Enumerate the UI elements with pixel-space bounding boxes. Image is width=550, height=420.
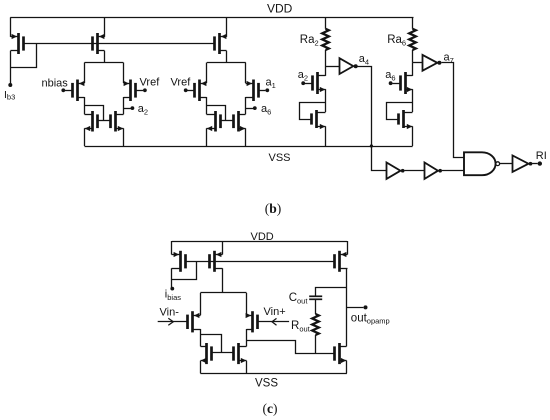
arrow Vin+ input xyxy=(272,318,277,325)
wire N3 diode tap xyxy=(207,106,226,121)
VSS rail (b) xyxy=(85,146,413,148)
wire T3 drain to cell2 rail xyxy=(226,51,228,63)
buffer A7 xyxy=(423,55,438,71)
wire output node xyxy=(346,268,348,346)
wire cap to Rout xyxy=(315,299,317,314)
svg-text:VDD: VDD xyxy=(267,1,293,15)
node a6 xyxy=(253,106,257,110)
svg-text:Vin-: Vin- xyxy=(160,307,180,319)
transistor N1 (NMOS mirror diode) xyxy=(85,111,98,132)
VSS rail (c) xyxy=(200,373,347,375)
transistor Pd2 (PMOS Vin+) xyxy=(246,311,258,332)
VDD rail (b) xyxy=(10,17,413,19)
transistor P1 (PMOS input nbias) xyxy=(65,80,85,102)
transistor N2 (NMOS mirror) xyxy=(111,111,124,132)
wire chain2 to NAND xyxy=(442,170,464,172)
wire Nc2 source down xyxy=(246,361,248,374)
wire a2 tap xyxy=(123,108,131,110)
node nbias xyxy=(61,88,65,92)
transistor P4 (PMOS input a1) xyxy=(246,80,266,102)
wire M1 diode loop xyxy=(172,262,197,280)
transistor M6 (NMOS output) xyxy=(335,343,347,364)
wire to RI xyxy=(532,163,538,165)
transistor Nb2 (NMOS diode) xyxy=(312,110,326,129)
wire T1 diode loop xyxy=(11,44,37,68)
wire M1-M2-M5 gate bus xyxy=(185,261,334,263)
transistor N3 (NMOS mirror diode) xyxy=(207,111,221,132)
wire a6 tap xyxy=(246,108,254,110)
transistor Na6 (NMOS gate a6) xyxy=(392,72,412,94)
wire cell2 left spine mid xyxy=(206,97,208,114)
buffer A8 xyxy=(387,163,401,179)
svg-text:RI: RI xyxy=(536,150,547,162)
wire N1 diode tap xyxy=(85,106,104,121)
wire first stage out to M6 gate xyxy=(247,341,335,354)
wire Nc1 diode tap xyxy=(201,335,222,353)
wire T1 drain down to Ib3 xyxy=(10,51,12,85)
wire M1 drain to ibias xyxy=(171,268,173,288)
wire a4 to chain xyxy=(358,67,387,171)
resistor Rout xyxy=(312,314,319,335)
transistor Nc2 (NMOS mirror) xyxy=(234,343,247,364)
wire cell2 left spine upper xyxy=(206,63,208,84)
buffer A4 xyxy=(340,58,354,74)
transistor Na2 (NMOS gate a2) xyxy=(305,72,326,94)
transistor Nc1 (NMOS mirror diode) xyxy=(201,343,212,364)
wire chain1 to A9 xyxy=(405,170,425,172)
wire Vin+ input xyxy=(258,321,289,323)
transistor N4 (NMOS mirror) xyxy=(234,111,246,132)
node chain1 xyxy=(401,169,405,173)
wire tail rail xyxy=(200,292,246,294)
wire cell2 right spine upper xyxy=(245,63,247,84)
transistor M2 (PMOS mirror) xyxy=(210,251,223,272)
wire cell1 left spine upper xyxy=(84,63,86,84)
transistor P2 (PMOS input Vref) xyxy=(124,80,144,102)
node a6 gate xyxy=(389,81,393,85)
svg-text:VSS: VSS xyxy=(269,152,291,164)
wire cell1 left spine mid xyxy=(84,97,86,114)
resistor Ra2 xyxy=(322,29,329,50)
wire Ra2 spine lower xyxy=(325,126,327,146)
wire N3-N4 gate link xyxy=(221,120,233,122)
wire Ra2 spine upper xyxy=(325,66,327,76)
capacitor Cout top lead xyxy=(316,288,347,297)
node buffer A10 out xyxy=(529,162,533,166)
wire cell2 right spine lower xyxy=(245,128,247,146)
wire cell1 right spine upper xyxy=(123,63,125,84)
wire Ra2 spine mid xyxy=(325,89,327,112)
node Ib3 xyxy=(8,83,12,87)
transistor P3 (PMOS input Vref) xyxy=(187,80,206,102)
wire Nc1 source down xyxy=(200,361,202,374)
node a7 xyxy=(437,61,441,65)
wire T1 source to VDD xyxy=(10,17,12,37)
wire T2 drain to cell1 rail xyxy=(104,51,106,63)
transistor T3 (PMOS mirror) xyxy=(215,33,227,54)
svg-text:VSS: VSS xyxy=(255,378,278,390)
resistor Ra6 lead top xyxy=(412,17,414,28)
arrow Vin- input xyxy=(168,318,173,325)
transistor Nb6 (NMOS diode) xyxy=(399,110,413,129)
node a2 gate xyxy=(301,81,305,85)
node chain2 xyxy=(438,169,442,173)
resistor Ra6 xyxy=(409,29,416,50)
wire cell1 left spine lower xyxy=(84,128,86,146)
wire Ra2 to node a4row xyxy=(325,50,327,66)
svg-text:nbias: nbias xyxy=(42,77,69,89)
wire T2 source to VDD xyxy=(104,17,106,37)
resistor Ra2 lead top xyxy=(325,17,327,28)
capacitor Cout xyxy=(309,296,322,299)
svg-text:Vin+: Vin+ xyxy=(264,306,286,318)
wire tail left down xyxy=(200,293,202,315)
wire node to buffer A4 xyxy=(325,66,339,68)
wire N1-N2 gate link xyxy=(98,120,110,122)
svg-text:Vref: Vref xyxy=(171,77,192,89)
svg-text:(c): (c) xyxy=(263,401,278,416)
svg-text:Vref: Vref xyxy=(140,77,161,89)
transistor T1 (PMOS diode) xyxy=(11,33,24,54)
transistor M5 (PMOS output) xyxy=(335,251,348,272)
wire cell1 right spine lower xyxy=(123,128,125,146)
node a2 xyxy=(131,106,135,110)
node outopamp xyxy=(364,305,368,309)
transistor T2 (PMOS mirror) xyxy=(93,33,105,54)
node Vref cell2 xyxy=(184,88,188,92)
wire M1 source to VDD xyxy=(171,241,173,255)
svg-text:(b): (b) xyxy=(265,201,282,216)
VDD rail (c) xyxy=(172,241,347,243)
wire Ra6 spine lower xyxy=(412,126,414,146)
wire cell2 right spine mid xyxy=(245,97,247,114)
wire cell1 top rail xyxy=(85,62,124,64)
wire Rout bottom xyxy=(315,335,317,354)
node a4 xyxy=(354,64,358,68)
buffer A10 xyxy=(513,156,529,172)
transistor M1 (PMOS diode) xyxy=(172,251,186,272)
wire Ra6 spine upper xyxy=(412,63,414,76)
wire T3 source to VDD xyxy=(226,17,228,37)
wire cell2 top rail xyxy=(207,62,246,64)
wire M2 source to VDD xyxy=(222,241,224,255)
wire M2 drain to tail xyxy=(222,268,224,293)
wire out tap xyxy=(347,307,364,309)
wire gate bus y=43 xyxy=(23,43,214,45)
node a1 xyxy=(265,88,269,92)
node a4-vss crossing xyxy=(370,144,373,147)
wire node to buffer A7 xyxy=(413,62,423,64)
wire tail right down xyxy=(246,293,248,315)
wire Pd1 drain down xyxy=(200,329,202,346)
wire Nc1-Nc2 gate link xyxy=(212,352,233,354)
node RI xyxy=(538,161,542,165)
wire Pd2 drain down xyxy=(246,329,248,346)
wire M5 source to VDD xyxy=(347,241,349,255)
wire a7 to NAND top input xyxy=(442,63,465,158)
wire Nb2 diode loop xyxy=(300,103,326,120)
wire Nb6 diode loop xyxy=(387,103,413,120)
wire Vin- input xyxy=(158,321,188,323)
wire Ra6 to node a7row xyxy=(412,50,414,63)
wire NAND to buffer A10 xyxy=(500,163,513,165)
wire Ra6 spine mid xyxy=(412,89,414,112)
transistor Pd1 (PMOS Vin-) xyxy=(188,311,201,332)
wire cell2 left spine lower xyxy=(206,128,208,146)
buffer A9 xyxy=(425,163,439,179)
node ibias xyxy=(170,287,174,291)
node Vref cell1 xyxy=(143,88,147,92)
wire cell1 right spine mid xyxy=(123,97,125,114)
nand gate U1 xyxy=(464,152,500,175)
wire M6 source down xyxy=(346,361,348,374)
